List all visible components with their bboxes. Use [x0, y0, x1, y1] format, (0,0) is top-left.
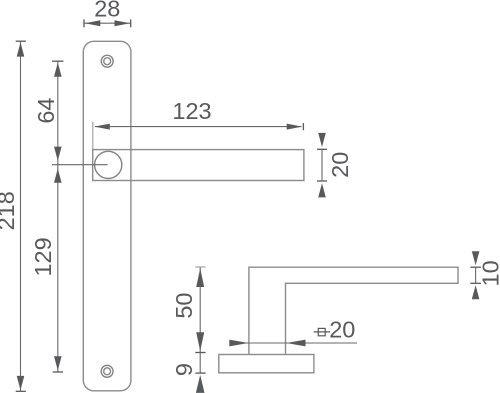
svg-text:64: 64: [33, 98, 59, 124]
svg-text:20: 20: [329, 316, 355, 342]
dimension 123 (lever length): [93, 98, 304, 150]
screw hole top: [101, 55, 113, 67]
dimension 50 (bar top to rosette top): [171, 267, 206, 353]
screw hole bottom: [101, 365, 113, 377]
handle side view: bar and neck outline: [249, 267, 458, 354]
dimension 64 (top screw to handle axis): [33, 61, 64, 165]
dimension 218 (plate height, left): [0, 41, 26, 391]
dimension 129 (handle axis to bottom screw): [30, 165, 63, 372]
plate outline (front view backplate): [83, 41, 131, 391]
svg-text:129: 129: [30, 237, 56, 276]
dimension 20 (lever bar height, right of front view): [317, 133, 353, 198]
lever bar (front view): [93, 150, 304, 181]
svg-text:20: 20: [327, 152, 353, 178]
svg-text:10: 10: [478, 260, 500, 286]
leader line to hub center: [52, 164, 108, 166]
dimension square-20 (neck square section): [229, 316, 357, 346]
lever hub circle: [95, 151, 122, 178]
svg-text:218: 218: [0, 191, 19, 230]
rosette base (side view): [219, 355, 314, 373]
dimension 10 (bar thickness, far right): [470, 251, 500, 299]
svg-text:123: 123: [172, 98, 211, 124]
dimension 9 (rosette height): [171, 353, 206, 393]
svg-text:9: 9: [171, 363, 197, 376]
svg-text:28: 28: [94, 0, 120, 22]
dimension 28 (plate width, top): [84, 0, 131, 27]
svg-text:50: 50: [171, 293, 197, 319]
